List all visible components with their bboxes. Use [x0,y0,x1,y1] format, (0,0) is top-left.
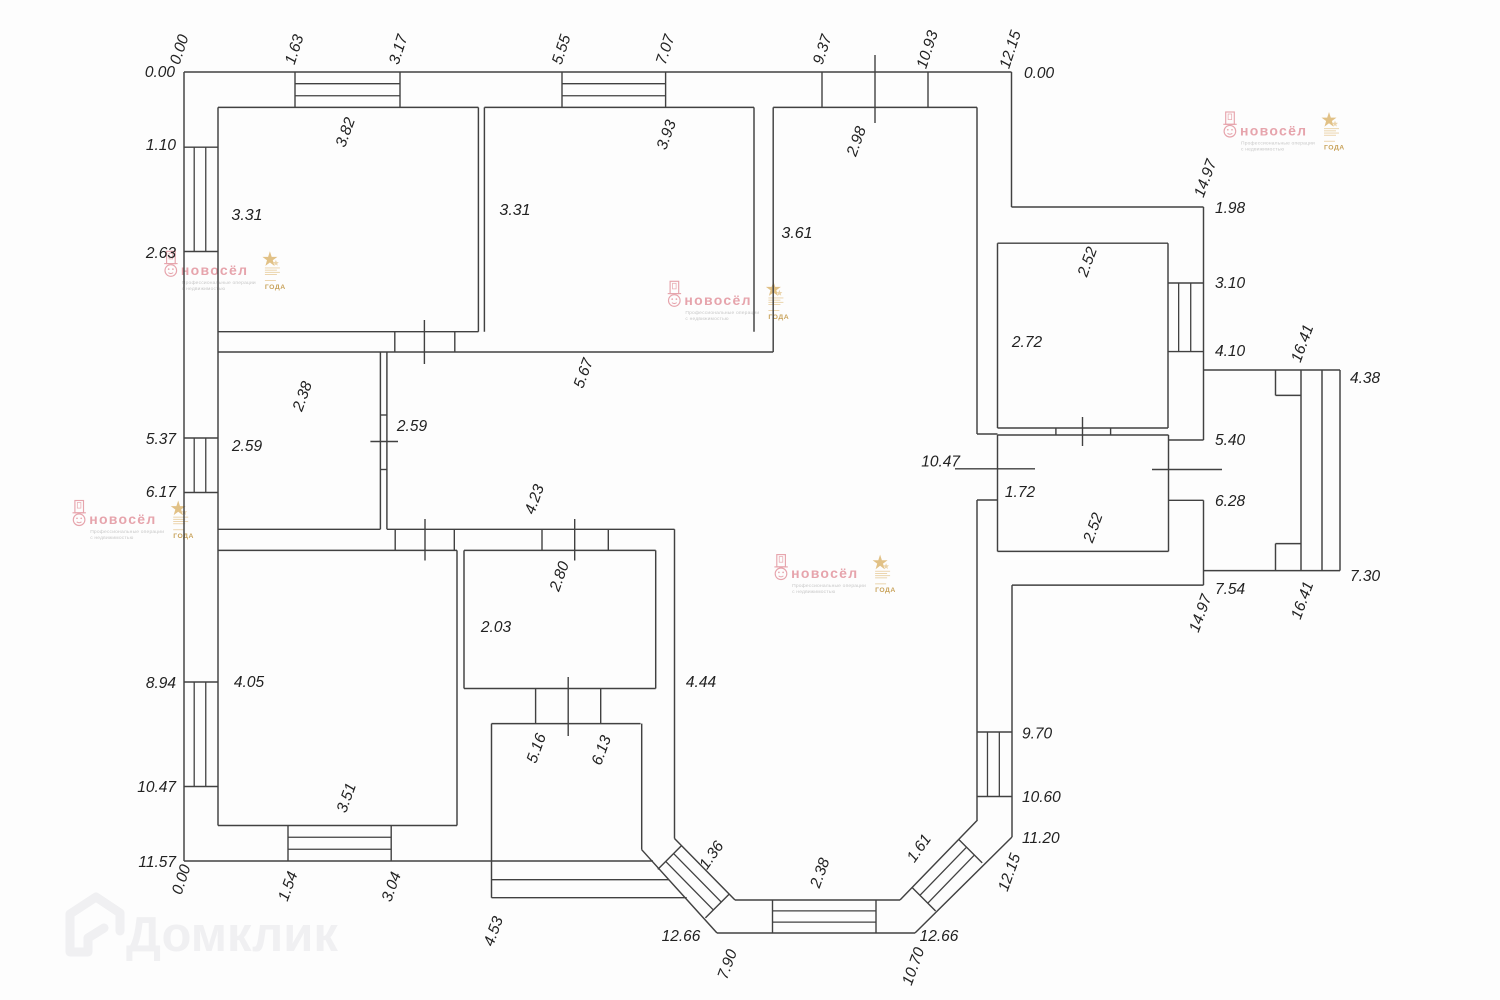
wall living left [674,529,676,838]
window living east pane line 2 [998,732,1000,797]
door living to room 1.72 jamb top [977,433,998,435]
wall room F right [456,550,458,825]
wall room G right [655,550,657,688]
svg-text:12.66: 12.66 [920,928,959,945]
svg-text:9.70: 9.70 [1022,726,1053,743]
window living east cap bottom [977,796,1012,798]
wall terrace bottom step 1 [492,879,669,881]
door hall to room F jamb right [453,529,455,550]
door room 2.72 to room 1.72 tick [1082,417,1084,446]
svg-text:2.59: 2.59 [231,438,263,455]
window top wall right pane line 2 [562,95,666,97]
porch right edge [1339,370,1341,571]
door room G to terrace jamb left [535,689,537,724]
svg-text:6.17: 6.17 [146,484,178,501]
svg-text:2.63: 2.63 [145,245,177,262]
svg-text:новосёл: новосёл [89,511,156,527]
wall exterior bottom-right step horizontal [1012,584,1204,586]
wall hall left [386,352,388,529]
wall bay inner right diagonal [900,820,978,900]
door hall to room G jamb left [541,529,543,550]
svg-text:8.94: 8.94 [146,675,177,692]
svg-text:новосёл: новосёл [1240,123,1307,139]
window left wall middle cap bottom [184,492,218,494]
window left wall lower pane line 2 [205,682,207,787]
wall bay outer right diagonal [915,837,1012,933]
door room G to terrace jamb right [600,689,602,724]
window bay bottom cap left [772,900,774,933]
door room 1.72 to porch jamb bottom [1169,499,1204,501]
svg-text:5.40: 5.40 [1215,432,1246,449]
window living east cap top [977,731,1012,733]
watermark Domklik house icon [70,897,120,952]
wall room 1.72 right [1168,435,1170,551]
window left wall lower cap bottom [184,786,218,788]
window bottom wall pane line 1 [288,836,391,838]
door room A to hall tick [423,320,425,364]
wall room B left [483,107,485,331]
door room D to hall jamb top [380,414,387,416]
svg-text:4.10: 4.10 [1215,343,1246,360]
wall hall bottom [387,528,675,530]
window bay right diagonal pane line 2 [928,855,975,903]
wall exterior top [184,71,1012,73]
wall room B top [484,106,754,108]
wall exterior top-right step horizontal [1012,206,1204,208]
svg-text:10.47: 10.47 [137,779,177,796]
door room D to hall jamb bottom [380,469,387,471]
door living to room 1.72 jamb bottom [977,499,998,501]
door room A to hall jamb left [394,332,396,352]
svg-text:Профессиональные операции: Профессиональные операции [182,280,256,286]
svg-text:с недвижимостью: с недвижимостью [90,536,133,541]
window left wall lower cap top [184,681,218,683]
wall bay outer bottom [717,932,915,934]
svg-text:11.20: 11.20 [1022,830,1060,847]
window top wall left cap left [294,72,296,107]
window bay right diagonal cap upper [959,839,983,863]
wall exterior bottom-left [184,860,653,862]
window left wall upper pane line 1 [193,147,195,251]
wall room G bottom [464,688,656,690]
wall room 1.72 top [998,434,1169,436]
svg-text:Профессиональные операции: Профессиональные операции [90,529,164,535]
svg-text:с недвижимостью: с недвижимостью [1241,148,1284,153]
opening top wall jamb left [821,72,823,107]
window bottom wall pane line 2 [288,848,391,850]
watermark novosel top-right [1223,112,1344,153]
wall exterior right of living room [1011,585,1013,837]
wall terrace right [641,724,643,850]
door room 1.72 to porch tick [1152,469,1222,471]
svg-text:новосёл: новосёл [181,262,248,278]
svg-text:с недвижимостью: с недвижимостью [792,590,835,595]
svg-text:1.98: 1.98 [1215,200,1246,217]
porch top landing vertical [1275,370,1277,395]
porch top landing horizontal [1276,394,1302,396]
wall room 2.72 left [997,243,999,428]
window bay bottom pane line 1 [773,910,877,912]
door living to room 1.72 tick [955,468,1035,470]
svg-text:с недвижимостью: с недвижимостью [182,287,225,292]
window right wing east pane line 1 [1178,283,1180,352]
wall room C left [772,107,774,352]
wall room G left [463,550,465,688]
window left wall lower pane line 1 [193,682,195,787]
wall room 2.72 top [998,242,1169,244]
window top wall left cap right [399,72,401,107]
window right wing east cap top [1168,282,1204,284]
wall hall top [218,351,773,353]
svg-text:Профессиональные операции: Профессиональные операции [685,310,759,316]
porch bottom landing vertical [1275,544,1277,571]
svg-text:ГОДА: ГОДА [265,284,286,291]
door hall to room G tick [574,519,576,561]
window right wing east pane line 2 [1190,283,1192,352]
svg-text:3.31: 3.31 [499,202,530,219]
window top wall right pane line 1 [562,83,666,85]
window left wall upper cap bottom [184,251,218,253]
opening top wall tick [874,55,876,123]
window top wall right cap right [665,72,667,107]
wall exterior left [183,72,185,861]
wall room D right [379,352,381,529]
svg-text:2.72: 2.72 [1011,334,1043,351]
svg-text:1.72: 1.72 [1005,484,1036,501]
wall exterior right upper [1203,207,1205,440]
wall room A bottom [218,331,478,333]
svg-text:6.28: 6.28 [1215,493,1246,510]
wall bay inner bottom [735,899,900,901]
window top wall left pane line 2 [295,95,400,97]
window bay left diagonal pane line 2 [666,861,714,910]
opening top wall jamb right [927,72,929,107]
wall room C top [773,106,977,108]
svg-text:0.00: 0.00 [145,64,176,81]
svg-text:0.00: 0.00 [1024,65,1055,82]
svg-text:10.60: 10.60 [1022,789,1061,806]
window bottom wall cap right [390,826,392,862]
door room 1.72 to porch jamb top [1169,439,1204,441]
svg-text:3.61: 3.61 [781,225,812,242]
window left wall middle cap top [184,437,218,439]
door hall to room G jamb right [607,529,609,550]
svg-text:10.47: 10.47 [921,454,961,471]
wall living right lower [976,500,978,820]
svg-text:Профессиональные операции: Профессиональные операции [792,583,866,589]
wall room F top [218,549,457,551]
wall exterior top-right step vertical [1011,72,1013,207]
wall exterior right lower [1203,500,1205,585]
door room A to hall jamb right [454,332,456,352]
window bay right diagonal pane line 1 [920,847,967,895]
window top wall left pane line 1 [295,83,400,85]
window bay left diagonal cap lower [705,894,729,918]
wall room G top [464,549,656,551]
wall bay inner left diagonal [675,839,736,901]
wall terrace bottom step 2 [492,897,687,899]
wall room 2.72 bottom [998,427,1169,429]
svg-text:ГОДА: ГОДА [875,587,896,594]
svg-text:11.57: 11.57 [138,854,177,871]
svg-text:Домклик: Домклик [126,908,338,962]
porch top edge [1204,369,1341,371]
watermark novosel room-A [164,251,285,291]
porch step line outer [1321,370,1323,571]
svg-text:2.03: 2.03 [480,619,512,636]
svg-text:7.54: 7.54 [1215,581,1246,598]
svg-text:ГОДА: ГОДА [768,314,789,321]
wall room 1.72 bottom [998,550,1169,552]
svg-text:4.44: 4.44 [686,674,717,691]
door room 2.72 to room 1.72 jamb right [1110,428,1112,435]
window left wall middle pane line 1 [193,438,195,493]
window left wall middle pane line 2 [205,438,207,493]
wall living right upper [976,107,978,434]
wall room 2.72 right [1167,243,1169,428]
wall room A top [218,106,478,108]
window bay bottom pane line 2 [773,921,877,923]
wall bay outer left diagonal [642,850,717,933]
window bay right diagonal cap lower [912,888,936,912]
door room D to hall tick [370,441,398,443]
svg-text:4.05: 4.05 [234,674,265,691]
svg-text:4.38: 4.38 [1350,370,1381,387]
window bottom wall cap left [287,826,289,862]
wall room B right [753,107,755,331]
door hall to room F jamb left [394,529,396,550]
svg-text:новосёл: новосёл [791,565,858,581]
window bay left diagonal cap upper [658,846,682,870]
svg-text:3.31: 3.31 [231,207,262,224]
door room 2.72 to room 1.72 jamb left [1055,428,1057,435]
wall terrace top [492,723,641,725]
wall room F bottom [218,825,457,827]
svg-text:2.59: 2.59 [396,418,428,435]
porch bottom landing horizontal [1276,543,1302,545]
window right wing east cap bottom [1168,351,1204,353]
window left wall upper pane line 2 [205,147,207,251]
wall interior left face [217,107,219,825]
wall room 1.72 left [997,435,999,551]
svg-text:5.37: 5.37 [146,431,178,448]
watermark novosel center-top [668,281,789,322]
porch bottom edge [1204,570,1341,572]
porch step line inner [1300,370,1302,571]
window left wall upper cap top [184,146,218,148]
svg-text:3.10: 3.10 [1215,275,1246,292]
svg-text:12.66: 12.66 [662,928,701,945]
wall room A right [477,107,479,331]
window bay left diagonal pane line 1 [674,854,722,903]
watermark novosel living-room [774,555,895,596]
svg-text:новосёл: новосёл [684,292,751,308]
svg-text:с недвижимостью: с недвижимостью [685,317,728,322]
door hall to room F tick [424,519,426,561]
wall terrace left [491,724,493,898]
watermark novosel left-edge [73,501,194,542]
door room G to terrace tick [567,677,569,736]
window bay bottom cap right [875,900,877,933]
wall room D bottom [218,528,380,530]
svg-text:Профессиональные операции: Профессиональные операции [1241,141,1315,147]
svg-text:1.10: 1.10 [146,137,177,154]
svg-text:ГОДА: ГОДА [1324,145,1345,152]
svg-text:7.30: 7.30 [1350,568,1381,585]
window top wall right cap left [561,72,563,107]
window living east pane line 1 [986,732,988,797]
